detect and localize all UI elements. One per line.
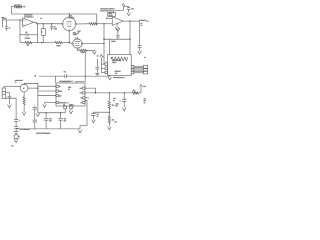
- wire coil left feed: [109, 39, 111, 55]
- wire dry signal right: [67, 75, 110, 78]
- LDR box: [41, 24, 45, 43]
- node cathode: [69, 42, 70, 43]
- wire cathode node to IC box top: [76, 50, 85, 83]
- U3 pin VCC right: [79, 87, 85, 90]
- wire tank pin1 feed: [101, 63, 105, 65]
- svg-text:0.1: 0.1: [64, 71, 66, 73]
- resistor R5 cathode: [79, 49, 87, 51]
- label bottom rail: [36, 132, 51, 135]
- U3 pin 2 left: [56, 90, 63, 93]
- label battery: [12, 145, 15, 147]
- wire tank feed vertical: [100, 57, 102, 72]
- svg-text:25v: 25v: [64, 120, 67, 122]
- input jack J1: [1, 17, 4, 27]
- ground arrow rail left: [36, 113, 40, 116]
- node input: [19, 19, 20, 20]
- wire rail up to +9v: [140, 87, 142, 93]
- capacitor C8 output: [138, 46, 142, 51]
- cable pair 1: [134, 66, 144, 67]
- U3 pin 3 left: [56, 95, 62, 98]
- wire U3 in2: [38, 90, 56, 92]
- resistor R8 divider: [108, 93, 110, 109]
- ground rail mid: [38, 112, 65, 114]
- U3 pin OUT right: [79, 92, 85, 95]
- wire V1b grid: [71, 42, 73, 45]
- wire dry drop to IC box: [55, 76, 57, 83]
- wire U3 fb stub: [85, 97, 89, 99]
- svg-text:0.05: 0.05: [54, 28, 57, 30]
- triode V1a: [62, 17, 77, 32]
- inductor L1: [139, 20, 149, 21]
- U3 pin 1 left: [56, 85, 61, 88]
- svg-text:0.1: 0.1: [96, 114, 98, 116]
- tank left pin 1: [105, 63, 108, 66]
- wire R5 to ground arrow: [87, 49, 94, 52]
- svg-text:22k: 22k: [112, 105, 115, 107]
- wire jack mid contact: [6, 93, 10, 97]
- wire supply column: [103, 24, 105, 64]
- tank left pin 3: [105, 71, 108, 74]
- U3 bottom pin C2: [69, 103, 75, 108]
- cable pair 3: [134, 72, 144, 73]
- label wire in: [34, 75, 36, 77]
- node bus2: [96, 23, 97, 24]
- capacitor C3: [50, 24, 53, 31]
- tank text rows: [112, 59, 122, 75]
- U3 pin FB right: [80, 97, 85, 100]
- triode V1b: [72, 38, 83, 49]
- svg-text:100u: 100u: [115, 104, 119, 106]
- ground end of dry wire: [108, 77, 112, 80]
- wire output down to coil right: [129, 21, 131, 55]
- svg-text:+: +: [19, 120, 20, 122]
- U3 pin 4 left: [56, 101, 70, 104]
- svg-text:4k7: 4k7: [133, 90, 136, 92]
- wire input to op-amp: [3, 19, 23, 21]
- wire U3 gnd pin: [45, 103, 56, 105]
- label U3: [59, 81, 74, 83]
- wire vref: [93, 111, 109, 113]
- wire V1a anode to bus: [68, 14, 70, 17]
- node A: [41, 42, 42, 43]
- label pot: [15, 80, 23, 84]
- capacitor C7 supply: [123, 7, 130, 13]
- svg-text:VCC: VCC: [79, 88, 82, 90]
- ground R6: [22, 112, 26, 115]
- node 100uF: [124, 92, 125, 93]
- wire from R1 to +V bus corner: [12, 6, 15, 14]
- wire cathode row: [20, 42, 71, 44]
- svg-text:xxx xxxxx xxx: xxx xxxxx xxx: [113, 77, 123, 79]
- node divider mid: [109, 109, 110, 115]
- op-amp U2: [112, 17, 123, 26]
- label C9: [64, 71, 66, 73]
- label V1b: [73, 32, 78, 36]
- label C3 value: [54, 26, 57, 30]
- svg-text:SPVERB/DRIVER: SPVERB/DRIVER: [59, 81, 74, 83]
- label top-center: [100, 7, 115, 12]
- svg-text:12AX7: 12AX7: [73, 33, 78, 36]
- label C2: [25, 32, 27, 34]
- capacitor C13: [14, 127, 18, 129]
- svg-text:xx: xx: [15, 82, 17, 84]
- svg-text:IC2a: IC2a: [108, 13, 112, 15]
- ground C15: [92, 120, 96, 123]
- label tank arrow: [103, 56, 104, 58]
- tank right pin 2: [131, 69, 134, 71]
- svg-text:LM3: LM3: [68, 87, 71, 89]
- node plate column: [103, 43, 104, 44]
- U3 center text: [68, 87, 71, 92]
- svg-text:+: +: [120, 100, 121, 102]
- tank box: [108, 55, 132, 76]
- svg-text:1k: 1k: [23, 6, 25, 8]
- wire V1a grid stub: [61, 23, 63, 25]
- label +9v right: [143, 86, 146, 88]
- wire output filter: [139, 21, 141, 45]
- node divider top: [109, 92, 110, 93]
- ground C16: [122, 107, 126, 111]
- wire U3 out route: [80, 100, 87, 129]
- resistor R2 feedback: [25, 41, 32, 43]
- wire bottom rail: [16, 128, 80, 130]
- wire U3 in1: [38, 85, 56, 87]
- ground V1b cathode: [93, 51, 97, 54]
- pin labels V1a: [65, 18, 66, 20]
- label near ground: [97, 55, 100, 57]
- wire V1a plate to R4: [76, 23, 90, 25]
- svg-text:uF: uF: [96, 116, 98, 118]
- label mark: [115, 121, 117, 124]
- wire tank pin3 feed: [101, 72, 105, 74]
- svg-text:xx: xx: [40, 18, 42, 20]
- label R7: [133, 90, 136, 92]
- label right edge: [144, 97, 147, 104]
- label op-amp U2: [108, 12, 116, 17]
- wire +V bus top: [12, 13, 97, 15]
- node LDR top: [43, 23, 44, 24]
- label R3 value: [57, 45, 62, 47]
- supply arrow +9v top: [122, 3, 125, 10]
- U3 pin PG right: [80, 101, 85, 104]
- svg-text:xx: xx: [113, 100, 115, 102]
- svg-text:25v: 25v: [49, 120, 52, 122]
- wire feedback left vertical: [19, 20, 21, 43]
- node rail c1: [45, 112, 46, 113]
- svg-text:xx: xx: [144, 102, 146, 104]
- label V1a: [69, 15, 74, 19]
- label R1 value: [23, 6, 25, 8]
- wire jack to battery column: [6, 98, 17, 120]
- label adapter: [19, 128, 30, 131]
- svg-text:12AX7: 12AX7: [69, 16, 74, 19]
- svg-text:1u: 1u: [9, 28, 11, 30]
- wire dry signal left: [39, 75, 65, 77]
- label near C8 ground: [144, 57, 146, 59]
- svg-text:2: 2: [75, 37, 76, 39]
- node anode: [69, 13, 70, 14]
- wire pot left drop: [3, 86, 5, 88]
- wire tank rail: [104, 38, 130, 40]
- resistor R6 pot: [23, 97, 25, 105]
- svg-text:xx: xx: [141, 25, 143, 27]
- ground U3 bottom: [69, 111, 73, 114]
- node output branch: [129, 20, 130, 21]
- svg-text:4u7: 4u7: [113, 98, 116, 100]
- label C16 plus: [120, 100, 121, 102]
- svg-text:86: 86: [68, 89, 70, 91]
- node vcc: [95, 92, 96, 93]
- wire pot right: [28, 87, 38, 89]
- label C2 value: [25, 38, 30, 40]
- supply arrow tank: [100, 55, 103, 58]
- wire U2 inverting input: [106, 17, 112, 19]
- op-amp U1: [23, 18, 34, 27]
- svg-text:47u: 47u: [131, 8, 134, 10]
- wire V1b top stub: [76, 37, 78, 39]
- IC U3 box: [56, 83, 85, 106]
- spring coil: [111, 57, 128, 61]
- svg-text:C2: C2: [25, 32, 27, 34]
- wire C16 gnd stem: [123, 106, 125, 109]
- svg-text:0.5uF: 0.5uF: [111, 41, 115, 43]
- wire U3 pin C1 to rail: [64, 109, 66, 113]
- svg-text:tank xx: tank xx: [115, 70, 121, 73]
- label C10: [49, 118, 52, 122]
- wire feedback right vertical: [36, 24, 38, 43]
- ground out route: [78, 130, 82, 133]
- svg-text:C1: C1: [63, 104, 65, 106]
- svg-text:0.0047: 0.0047: [25, 38, 30, 40]
- ground arrow above C5: [116, 28, 120, 31]
- resistor R9 divider: [108, 115, 110, 126]
- wire U3 in3: [38, 95, 56, 97]
- label R2 value: [27, 45, 30, 47]
- ground jack: [8, 105, 12, 108]
- output jack J2: [2, 88, 5, 99]
- ground flat tank: [95, 74, 99, 76]
- wire R6 down: [23, 105, 25, 112]
- capacitor C2 feedback: [20, 33, 37, 36]
- wire U1 output to V1a grid: [34, 22, 63, 24]
- capacitor C5 coupling: [116, 31, 119, 39]
- cable pair 2: [134, 69, 144, 70]
- svg-text:L: L: [42, 32, 43, 34]
- wire U3 pin C2 ground: [70, 109, 72, 111]
- svg-text:SYNC_MODE: SYNC_MODE: [59, 102, 70, 104]
- label small: [40, 18, 42, 20]
- node rail left: [103, 39, 104, 40]
- svg-text:C4: C4: [54, 26, 56, 28]
- svg-text:1/2 4558/xx: 1/2 4558/xx: [24, 17, 33, 19]
- label C5 value: [111, 41, 115, 43]
- label input: [3, 18, 6, 20]
- svg-text:xx 9V DC Adapter: xx 9V DC Adapter: [36, 132, 50, 135]
- wire V1b cathode: [77, 48, 79, 50]
- label R5 value: [81, 52, 86, 54]
- label R8: [112, 105, 115, 107]
- svg-text:7: 7: [65, 18, 66, 20]
- svg-text:PG: PG: [80, 102, 82, 104]
- wire pot bus: [37, 83, 39, 113]
- svg-text:IC1 TL072: IC1 TL072: [24, 15, 32, 17]
- wire pot wiper down: [23, 92, 25, 97]
- capacitor C12: [14, 120, 18, 127]
- wire V1b plate: [82, 43, 104, 45]
- label tank: [113, 77, 125, 79]
- svg-text:xx: xx: [144, 57, 146, 59]
- wire tank pin2 feed: [101, 67, 105, 69]
- label C1: [9, 27, 11, 29]
- tank right pin 1: [131, 65, 134, 68]
- resistor R7 rail: [132, 92, 138, 94]
- pot M1 circle: [20, 84, 28, 92]
- wire pot left: [4, 85, 21, 87]
- capacitor C9 series: [65, 74, 67, 78]
- U3 bottom pin C1: [63, 104, 66, 109]
- wire +9 rail: [85, 92, 141, 94]
- wire U2 output: [123, 20, 139, 22]
- svg-text:IN2: IN2: [59, 96, 62, 98]
- label op-amp U1: [24, 14, 34, 18]
- capacitor C16 100uF: [122, 93, 127, 107]
- ground battery: [14, 138, 18, 142]
- capacitor C11: [58, 113, 63, 129]
- node feedback: [37, 23, 38, 24]
- wire U3 vcc route: [85, 88, 95, 93]
- output connector block: [143, 65, 147, 74]
- capacitor C10: [44, 113, 49, 129]
- svg-text:OUT: OUT: [79, 93, 82, 95]
- ground U3 left: [43, 104, 47, 107]
- tank left pin 2: [105, 67, 108, 70]
- battery B1: [14, 129, 19, 133]
- wire bus corner down to signal bus: [96, 14, 98, 24]
- label C16 value: [115, 103, 119, 107]
- pin labels V1b: [75, 37, 76, 39]
- svg-text:xxx: xxx: [115, 73, 118, 75]
- label C12: [19, 120, 20, 122]
- svg-text:10u: 10u: [49, 118, 52, 120]
- ground divider: [108, 127, 112, 130]
- wire V1a cathode down: [68, 31, 70, 43]
- resistor R4 on bus: [89, 23, 97, 25]
- resistor R1 in box (top-left): [15, 5, 23, 8]
- wire pot top: [24, 82, 38, 85]
- wire bus to op-amp2: [97, 23, 112, 25]
- svg-text:16v: 16v: [115, 106, 118, 108]
- tank right pin 3: [131, 71, 134, 74]
- ground under U2: [115, 23, 119, 30]
- DC jack column: [33, 106, 37, 129]
- label C15: [96, 114, 98, 118]
- node rail right: [129, 39, 130, 40]
- resistor R3: [55, 41, 62, 43]
- node supply column top: [103, 23, 104, 24]
- capacitor C1 on input: [5, 20, 8, 31]
- capacitor C14 jack: [8, 96, 12, 104]
- svg-text:10u: 10u: [64, 118, 67, 120]
- wire +9 to IC2: [114, 11, 124, 14]
- label 4u7: [113, 98, 116, 102]
- label L1: [141, 23, 143, 27]
- svg-text:B: B: [19, 136, 20, 138]
- node pot bus: [37, 87, 38, 88]
- capacitor C15 vref: [91, 112, 96, 119]
- label C7: [131, 8, 134, 10]
- node rail c2: [60, 112, 61, 113]
- capacitor C6 tank decouple: [95, 59, 99, 74]
- node C3 top: [51, 23, 52, 24]
- svg-text:FB: FB: [80, 98, 82, 100]
- ground under C8: [138, 51, 142, 54]
- svg-text:820R: 820R: [57, 45, 62, 47]
- switch box S1: [14, 135, 20, 139]
- label C11: [64, 118, 67, 122]
- label near grid cap: [77, 31, 80, 35]
- supply arrow +9v right: [140, 84, 143, 87]
- ground under C7: [127, 13, 131, 16]
- label R9: [112, 119, 115, 121]
- svg-text:+9v: +9v: [143, 86, 146, 88]
